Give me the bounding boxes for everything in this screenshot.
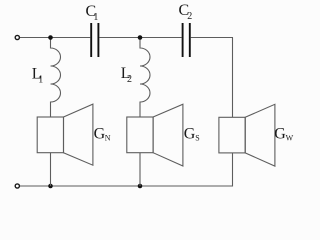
capacitor C1 (86, 3, 99, 57)
svg-text:N: N (105, 134, 111, 143)
speaker GS (midrange) (127, 104, 200, 186)
speaker GW (tweeter) (219, 104, 294, 166)
wire GS bottom lead (139, 153, 141, 186)
svg-text:W: W (286, 134, 294, 143)
GN horn (64, 104, 93, 165)
wire top rail: C1 right plate to C2 left plate (99, 37, 181, 39)
node: junction top rail / L2 and C2 tap (138, 35, 143, 40)
wire right vertical drop from top-right corner to GW speaker (232, 38, 234, 118)
C2 left plate (182, 23, 184, 57)
GS driver body (127, 117, 153, 153)
node: junction top rail / L1 tap (48, 35, 53, 40)
svg-text:G: G (184, 125, 196, 142)
node: junction bottom rail / GS return (138, 184, 143, 189)
svg-text:S: S (195, 134, 199, 143)
C1 left plate (90, 23, 92, 57)
terminal: bottom-left input (15, 184, 19, 188)
svg-text:1: 1 (93, 12, 98, 23)
svg-text:1: 1 (38, 74, 43, 85)
C2 right plate (189, 23, 191, 57)
C1 right plate (97, 23, 99, 57)
svg-text:2: 2 (127, 74, 132, 85)
inductor L1 (32, 38, 61, 117)
node: junction bottom rail / GN return (48, 184, 53, 189)
svg-text:G: G (274, 125, 286, 142)
GS horn (153, 104, 183, 166)
wire top rail: input terminal to C1 left plate (20, 37, 91, 39)
GN driver body (37, 117, 63, 153)
L2 coil with top and bottom leads (140, 38, 150, 117)
wire bottom rail: input terminal to bottom-right corner (20, 185, 233, 187)
wire GN bottom lead (50, 153, 52, 186)
terminal: top-left input (15, 35, 19, 39)
wire top rail: C2 right plate to top-right corner (191, 37, 233, 39)
GW driver body (219, 117, 245, 153)
L1 coil with top and bottom leads (51, 38, 61, 117)
wire GW bottom lead (232, 153, 234, 187)
capacitor C2 (179, 2, 193, 57)
GW horn (245, 104, 275, 166)
svg-text:2: 2 (187, 11, 192, 22)
speaker GN (woofer) (37, 104, 111, 186)
inductor L2 (121, 38, 150, 117)
